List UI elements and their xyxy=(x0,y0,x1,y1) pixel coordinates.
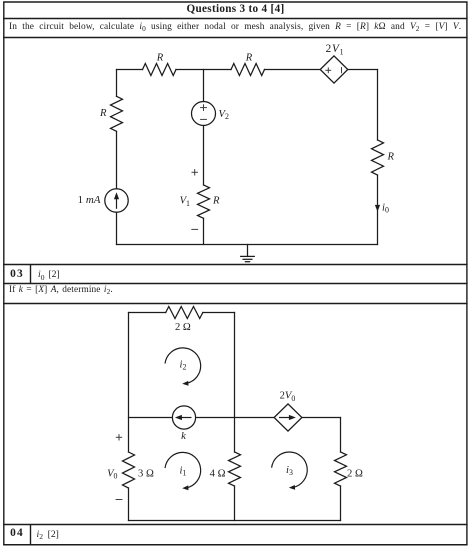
svg-text:k: k xyxy=(181,431,186,442)
svg-text:V0: V0 xyxy=(107,468,117,480)
svg-text:2 Ω: 2 Ω xyxy=(175,322,191,333)
svg-text:R: R xyxy=(387,151,395,162)
svg-text:i3: i3 xyxy=(286,465,293,477)
svg-text:1 mA: 1 mA xyxy=(78,194,101,206)
svg-text:i0: i0 xyxy=(382,202,389,214)
svg-text:4 Ω: 4 Ω xyxy=(210,468,226,479)
svg-text:2V1: 2V1 xyxy=(326,43,345,56)
svg-text:i2: i2 xyxy=(180,359,187,371)
svg-text:V2: V2 xyxy=(219,109,229,121)
svg-text:R: R xyxy=(156,52,164,63)
svg-text:3 Ω: 3 Ω xyxy=(138,468,154,479)
svg-text:i1: i1 xyxy=(180,465,187,477)
svg-text:2V0: 2V0 xyxy=(280,391,296,403)
svg-text:V1: V1 xyxy=(180,196,190,208)
svg-text:R: R xyxy=(99,108,107,119)
svg-text:R: R xyxy=(245,52,253,63)
svg-text:R: R xyxy=(212,196,220,207)
svg-text:2 Ω: 2 Ω xyxy=(347,468,363,479)
